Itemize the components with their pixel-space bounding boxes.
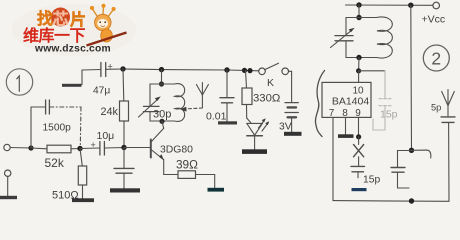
wire pin8 <box>345 118 347 135</box>
wire hook <box>412 150 431 158</box>
wire <box>358 58 360 71</box>
resistor 24k <box>101 69 129 148</box>
wire <box>10 147 31 150</box>
svg-text:找: 找 <box>37 9 53 28</box>
wire pin9 <box>358 118 360 137</box>
wire pin7 <box>332 118 334 201</box>
capacitor right <box>391 151 412 189</box>
node K2 <box>408 2 413 7</box>
svg-text:10μ: 10μ <box>97 130 115 142</box>
switch K <box>259 63 292 102</box>
wire +Vcc drop <box>410 5 413 150</box>
svg-text:BA1404: BA1404 <box>332 96 370 108</box>
svg-text:维库一下: 维库一下 <box>23 26 86 45</box>
oscillator tank L1/C 30p <box>139 84 185 122</box>
node M tank bottom <box>356 55 361 60</box>
node Q <box>409 198 414 203</box>
resistor 52k <box>31 145 80 170</box>
wire right riser <box>448 123 450 201</box>
ground for battery <box>284 132 302 136</box>
svg-text:330Ω: 330Ω <box>253 93 280 105</box>
node 1 circle <box>6 69 32 95</box>
node 2 circle <box>423 45 449 71</box>
svg-text:3DG80: 3DG80 <box>160 145 193 156</box>
battery 3V <box>279 103 298 133</box>
blue mark <box>352 188 367 191</box>
capacitor C 47u <box>82 62 113 85</box>
svg-text:24k: 24k <box>101 106 119 118</box>
wire collector <box>162 121 164 128</box>
node A bus-24k <box>120 66 125 71</box>
ground below base cap <box>110 188 140 192</box>
svg-text:片: 片 <box>70 10 86 29</box>
wire top bus right <box>346 4 433 6</box>
LED D1 <box>247 118 270 149</box>
svg-text:K: K <box>267 77 274 89</box>
wire pin10 <box>358 71 360 83</box>
svg-text:1500p: 1500p <box>43 123 72 134</box>
node B <box>28 145 33 150</box>
node I bus-330 <box>242 68 247 73</box>
node F tank top <box>159 81 164 86</box>
op-amp U1 BA1404 box <box>322 82 371 118</box>
wire bottom bus <box>333 200 449 203</box>
ground for 510 <box>72 198 94 202</box>
svg-text:52k: 52k <box>45 156 65 170</box>
node J <box>356 2 361 7</box>
coupling arrow dashed <box>180 107 202 112</box>
capacitor 1500p <box>31 100 81 148</box>
svg-text:+Vcc: +Vcc <box>422 14 446 26</box>
ground for 47u <box>62 84 82 87</box>
node L <box>356 15 361 20</box>
svg-text:+: + <box>108 62 113 72</box>
node G tank bottom <box>159 119 164 124</box>
node H bus-0.01 <box>224 67 229 72</box>
svg-text:+: + <box>91 140 96 150</box>
svg-text:7: 7 <box>329 108 335 119</box>
ground for 0.01 <box>218 121 237 124</box>
svg-text:芯: 芯 <box>53 10 69 29</box>
antenna mid <box>196 83 208 108</box>
antenna right <box>442 90 455 117</box>
capacitor 15p <box>351 166 380 185</box>
wire <box>358 5 360 18</box>
node C <box>77 146 82 151</box>
capacitor 10u <box>80 130 124 155</box>
svg-text:47μ: 47μ <box>93 86 110 97</box>
capacitor 15p faint <box>373 71 398 130</box>
svg-text:15p: 15p <box>363 175 380 186</box>
node P <box>409 148 414 153</box>
svg-text:5p: 5p <box>431 103 441 113</box>
svg-text:2: 2 <box>431 49 441 69</box>
wire to 15p branch <box>359 70 385 72</box>
wire <box>161 70 163 84</box>
node O <box>356 134 361 139</box>
wire top-left bus <box>106 68 123 70</box>
ground pin8 <box>338 134 354 138</box>
wire <box>7 176 9 196</box>
hand-drawn arc <box>315 71 324 137</box>
input terminal 1 <box>4 144 10 150</box>
svg-text:3V: 3V <box>279 122 292 133</box>
resistor 39 <box>176 158 215 189</box>
svg-text:0.01: 0.01 <box>206 111 227 123</box>
crystal X1 <box>354 137 364 166</box>
svg-text:15p: 15p <box>380 109 398 121</box>
svg-text:30p: 30p <box>153 109 171 121</box>
capacitor 0.01 <box>206 70 234 123</box>
ground for LED <box>242 149 267 154</box>
node E bus-tank <box>159 67 164 72</box>
tank L2 / variable capacitor <box>331 17 393 58</box>
ground teal for 39 <box>208 188 225 192</box>
terminal +Vcc <box>433 2 440 9</box>
ground <box>0 196 17 199</box>
svg-text:www.dzsc.com: www.dzsc.com <box>34 43 111 54</box>
svg-text:39Ω: 39Ω <box>176 158 198 172</box>
capacitor 5p <box>431 103 455 123</box>
node N <box>356 68 361 73</box>
logo watermark <box>12 4 136 56</box>
capacitor base bypass <box>114 148 134 189</box>
transistor Q1 3DG80 <box>124 128 193 174</box>
resistor 510 <box>52 149 87 202</box>
node D base node <box>121 145 126 150</box>
resistor 330 <box>242 70 280 118</box>
input terminal 2 <box>5 170 11 176</box>
